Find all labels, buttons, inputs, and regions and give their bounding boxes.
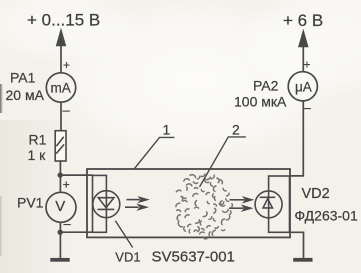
node A junction xyxy=(58,172,63,177)
LED housing xyxy=(93,175,107,232)
svg-text:+ 0...15 В: + 0...15 В xyxy=(27,11,100,30)
svg-text:1 к: 1 к xyxy=(28,147,47,163)
svg-text:PA2: PA2 xyxy=(253,78,279,94)
svg-text:–: – xyxy=(304,100,312,115)
LED VD1 xyxy=(93,191,120,218)
supply arrow left xyxy=(56,30,65,46)
svg-text:PV1: PV1 xyxy=(17,195,44,211)
svg-text:+: + xyxy=(63,178,70,192)
ground left xyxy=(50,258,69,262)
optical medium cloud 2 xyxy=(176,174,233,239)
svg-text:100 мкА: 100 мкА xyxy=(234,94,287,110)
wire node B to left ground xyxy=(59,232,61,259)
wire photodiode anode to right ground xyxy=(290,232,304,258)
ammeter PA2 xyxy=(288,72,317,101)
node B junction xyxy=(58,230,63,235)
wire +6V supply to PA2 xyxy=(302,44,304,72)
svg-text:mA: mA xyxy=(51,81,71,96)
resistor R1 xyxy=(55,131,66,161)
svg-text:+: + xyxy=(304,58,311,72)
wire PV1 to node B xyxy=(59,222,61,233)
callout leader 1 xyxy=(135,137,175,168)
wire +0...15V supply to PA1 xyxy=(60,44,62,73)
svg-text:V: V xyxy=(55,198,65,215)
wire node A to PV1 xyxy=(59,175,61,192)
callout leader 2 xyxy=(200,137,246,187)
svg-text:VD2: VD2 xyxy=(302,186,330,202)
supply arrow right xyxy=(299,31,308,47)
ground right xyxy=(293,258,312,262)
voltmeter PV1 xyxy=(46,192,76,222)
ammeter PA1 xyxy=(46,73,75,102)
wire R1 to node A xyxy=(59,161,61,176)
light ray arrows medium to photodiode xyxy=(229,198,252,211)
wire PA2 to photodiode cathode xyxy=(290,101,304,176)
svg-text:PA1: PA1 xyxy=(10,70,36,86)
svg-text:20 мА: 20 мА xyxy=(6,87,45,103)
wire node A to LED anode xyxy=(60,174,93,176)
svg-text:SV5637-001: SV5637-001 xyxy=(152,249,235,266)
wire PA1 to R1 xyxy=(60,102,62,131)
svg-text:ФД263-01: ФД263-01 xyxy=(295,208,358,224)
svg-text:+ 6 В: + 6 В xyxy=(283,11,323,30)
VD1 leader xyxy=(115,221,132,248)
svg-text:2: 2 xyxy=(232,122,240,138)
svg-text:μA: μA xyxy=(295,80,312,95)
svg-text:+: + xyxy=(63,58,70,72)
wire node B to LED cathode xyxy=(60,231,93,233)
svg-text:–: – xyxy=(64,216,72,231)
svg-text:–: – xyxy=(63,103,71,118)
svg-text:VD1: VD1 xyxy=(115,250,140,265)
photodiode VD2 xyxy=(255,191,282,218)
optocoupler package outline 1 xyxy=(87,169,290,237)
photodiode housing xyxy=(269,176,290,232)
light ray arrows LED to medium xyxy=(125,198,147,210)
svg-text:R1: R1 xyxy=(29,132,47,148)
svg-text:1: 1 xyxy=(163,122,171,138)
